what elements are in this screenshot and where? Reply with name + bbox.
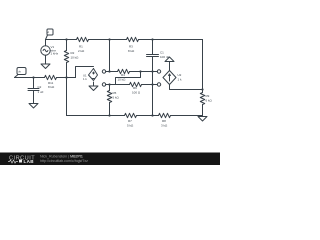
svg-text:R3: R3 — [129, 45, 133, 49]
op-amp U1 dependent source — [93, 68, 95, 70]
svg-text:R5: R5 — [113, 91, 117, 95]
wire U2 bottom — [170, 85, 203, 90]
wire right drop — [202, 40, 204, 90]
wire left rail — [15, 77, 45, 79]
ground — [198, 117, 207, 122]
resistor R2 vertical branch — [66, 40, 68, 51]
capacitor C1 — [147, 54, 159, 56]
svg-text:1 k: 1 k — [83, 77, 87, 81]
svg-text:100 nF: 100 nF — [160, 55, 170, 59]
junction dots — [32, 38, 203, 116]
svg-text:R6: R6 — [133, 86, 137, 90]
svg-text:8 kΩ: 8 kΩ — [128, 49, 135, 53]
resistor R3 — [127, 37, 139, 41]
wire mid jog — [116, 72, 141, 85]
wire branch from top rail — [109, 40, 111, 72]
svg-text:C1: C1 — [160, 51, 164, 55]
svg-text:6 kΩ: 6 kΩ — [206, 99, 213, 103]
svg-text:R1: R1 — [79, 45, 83, 49]
svg-text:C2: C2 — [38, 85, 42, 89]
svg-text:LAB: LAB — [24, 159, 35, 164]
ground — [41, 64, 50, 69]
resistor R4 — [118, 69, 130, 73]
svg-text:10 kΩ: 10 kΩ — [118, 78, 127, 82]
ground — [89, 86, 98, 91]
labels — [18, 31, 212, 127]
resistor R7 — [125, 113, 137, 117]
wire mid bottom rail — [106, 84, 130, 86]
resistor R1 — [77, 37, 89, 41]
svg-text:R7: R7 — [128, 119, 132, 123]
ground — [29, 104, 38, 109]
op-amp U2 dependent source — [163, 71, 176, 85]
svg-text:100 Ω: 100 Ω — [132, 91, 141, 95]
resistor R6 — [130, 82, 142, 86]
node U2 sense terminals — [157, 70, 160, 73]
svg-text:R2: R2 — [71, 51, 75, 55]
svg-text:R4: R4 — [121, 73, 125, 77]
resistor R11 — [45, 75, 57, 79]
svg-text:1 uF: 1 uF — [38, 90, 44, 94]
node flag vb — [17, 68, 26, 75]
wire C1 branch — [152, 40, 154, 55]
svg-text:1 kHz: 1 kHz — [51, 52, 59, 56]
svg-text:5 kΩ: 5 kΩ — [127, 124, 134, 128]
svg-text:Nick_Rubenstein | MB2Pt1: Nick_Rubenstein | MB2Pt1 — [40, 155, 83, 159]
node U1 sense terminals — [102, 70, 105, 73]
ground flipped up — [165, 57, 174, 62]
capacitor C2 — [33, 78, 35, 89]
wire mid drop — [152, 72, 154, 116]
resistor R8 — [159, 113, 171, 117]
svg-text:3 kΩ: 3 kΩ — [161, 124, 168, 128]
svg-text:1 k: 1 k — [178, 78, 183, 82]
svg-text:2 kΩ: 2 kΩ — [78, 49, 85, 53]
node flag vi — [47, 29, 53, 35]
svg-text:R8: R8 — [162, 119, 166, 123]
wire top rail — [46, 39, 77, 41]
svg-text:10 kΩ: 10 kΩ — [71, 56, 80, 60]
svg-text:8 kΩ: 8 kΩ — [48, 85, 55, 89]
wire jog to U1 — [76, 67, 94, 78]
resistor R9 — [202, 90, 204, 93]
svg-text:http://circuitlab.com/c/hqjsf7: http://circuitlab.com/c/hqjsf7xz — [40, 159, 88, 163]
svg-text:R9: R9 — [206, 94, 210, 98]
voltage source V1 — [45, 40, 47, 46]
svg-text:U2: U2 — [178, 73, 182, 77]
svg-text:5 kΩ: 5 kΩ — [113, 96, 120, 100]
wire mid top rail — [106, 71, 118, 73]
watermark bar — [0, 153, 220, 166]
resistor R5 — [109, 85, 111, 91]
wire bottom rail — [67, 115, 125, 117]
